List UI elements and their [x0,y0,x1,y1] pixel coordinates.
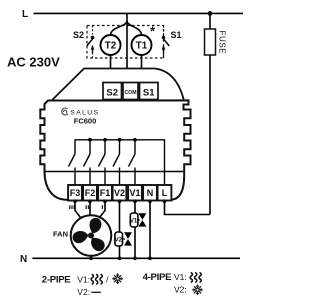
svg-text:S1: S1 [143,88,155,99]
svg-text:N: N [147,188,154,198]
svg-text:SALUS: SALUS [70,109,99,116]
svg-text:F1: F1 [100,188,111,198]
svg-text:FUSE: FUSE [218,31,227,55]
svg-text:F2: F2 [85,188,96,198]
svg-text:FAN: FAN [53,230,68,239]
svg-text:V1:: V1: [77,275,90,285]
svg-text:V1: V1 [129,188,140,198]
svg-text:L: L [162,188,168,198]
svg-text:V1: V1 [130,219,138,225]
svg-text:S2: S2 [73,30,84,40]
svg-text:L: L [22,9,28,20]
svg-text:N: N [20,254,27,265]
svg-text:V2: V2 [115,238,123,244]
svg-text:F3: F3 [70,188,81,198]
svg-text:V2: V2 [114,188,125,198]
svg-text:V1:: V1: [174,272,187,282]
svg-text:COM: COM [124,90,136,96]
svg-text:2-PIPE: 2-PIPE [42,275,71,286]
svg-text:AC 230V: AC 230V [7,55,60,70]
svg-text:V2:: V2: [174,285,187,295]
svg-text:T2: T2 [105,41,117,52]
svg-text:V2:: V2: [77,287,90,297]
svg-text:4-PIPE: 4-PIPE [143,272,172,283]
svg-text:S2: S2 [106,88,118,99]
svg-text:T1: T1 [136,41,148,52]
svg-text:FC600: FC600 [74,117,97,126]
svg-text:S1: S1 [171,30,182,40]
